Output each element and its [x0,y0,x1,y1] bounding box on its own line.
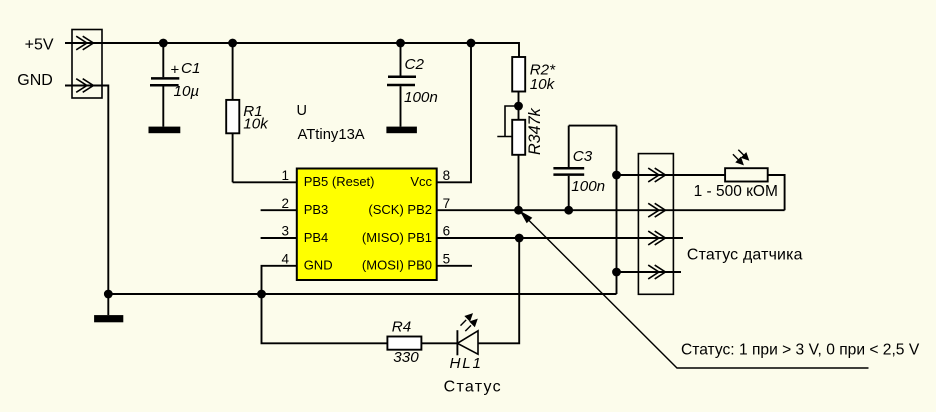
photoresistor body [725,168,768,181]
wire pin3 stub [261,237,297,239]
photoresistor light arrows [733,150,748,165]
svg-text:HL1: HL1 [450,355,483,372]
svg-text:R4: R4 [392,318,411,335]
svg-text:(MOSI) PB0: (MOSI) PB0 [362,258,432,273]
svg-text:Статус: Статус [444,378,502,395]
resistor R2 [512,57,525,120]
connector X1 [72,30,102,99]
LED HL1 [457,330,478,355]
svg-text:6: 6 [443,224,451,239]
leader arrowhead [520,211,533,224]
svg-text:Статус датчика: Статус датчика [687,246,803,263]
junction C3 pin7 [564,206,573,215]
IC U1 ATtiny13A body [297,169,437,281]
wire pin6 status [437,237,683,239]
svg-text:PB4: PB4 [304,230,329,245]
svg-text:ATtiny13A: ATtiny13A [298,127,365,143]
svg-text:1 - 500 кОМ: 1 - 500 кОМ [694,183,778,200]
svg-text:5: 5 [443,252,451,267]
wire pin8 Vcc [437,43,471,182]
wire arrow4 gnd stub [617,271,681,273]
junction sensor gnd [612,171,621,180]
svg-text:8: 8 [443,168,451,183]
capacitor C1 [150,43,179,127]
junction LED pin6 [515,234,524,243]
svg-text:C1: C1 [181,60,200,77]
svg-text:2: 2 [281,196,289,211]
wire C3 top loop [569,125,617,127]
svg-text:GND: GND [17,72,53,89]
svg-text:R347k: R347k [526,107,544,155]
svg-text:7: 7 [443,196,451,211]
svg-text:(SCK) PB2: (SCK) PB2 [368,202,432,217]
svg-text:+: + [171,62,180,79]
svg-text:(MISO) PB1: (MISO) PB1 [362,230,432,245]
ground symbol C2 [386,127,417,134]
junction rail gnd [104,290,113,299]
wire photoresistor right loop [768,175,785,210]
wire pin1 [233,181,297,183]
svg-text:10k: 10k [530,76,556,93]
junction +5V C2 [396,39,405,48]
leader note line [520,212,869,369]
svg-text:100n: 100n [571,178,605,195]
wire arrow1 sensor [617,174,726,176]
svg-text:+5V: +5V [25,36,54,53]
junction +5V Vcc [467,39,476,48]
junction +5V C1 [159,39,168,48]
capacitor C3 [553,126,584,211]
LED emission arrows [461,314,477,331]
junction R2 R3 [514,102,523,111]
wire pin5 stub [437,265,472,267]
resistor R1 [226,43,239,182]
capacitor C2 [387,43,416,127]
svg-text:4: 4 [281,252,289,267]
svg-text:330: 330 [393,349,419,366]
svg-text:10k: 10k [243,115,269,132]
wire ground feed vertical [616,126,618,294]
svg-text:Vcc: Vcc [410,174,432,189]
junction rail pin4 [257,290,266,299]
wire +5V rail [65,43,519,57]
wire GND [65,86,108,295]
wire pin7 ADC [437,209,785,211]
svg-text:PB3: PB3 [304,202,329,217]
junction +5V R1 [228,39,237,48]
svg-text:10µ: 10µ [174,83,200,100]
svg-text:Статус: 1 при > 3 V, 0 при < 2: Статус: 1 при > 3 V, 0 при < 2,5 V [681,342,920,359]
wire pin2 stub [261,209,297,211]
wire R4 to LED [421,342,457,344]
wire pin4 GND [262,266,297,294]
wire R4 branch [262,294,388,343]
svg-text:C2: C2 [405,56,425,73]
svg-text:PB5 (Reset): PB5 (Reset) [304,174,375,189]
svg-text:U: U [297,103,307,119]
svg-text:3: 3 [281,224,289,239]
connector X2 [638,154,673,295]
svg-text:100n: 100n [404,89,438,106]
svg-text:GND: GND [304,258,333,273]
wire ground rail [108,293,616,295]
ground symbol C1 [149,127,181,134]
svg-text:1: 1 [281,168,289,183]
wire LED up to pin6 [478,238,519,343]
svg-text:C3: C3 [573,148,593,165]
junction R3 pin7 [514,206,523,215]
resistor R4 [387,337,421,350]
ground symbol main [107,294,109,315]
trimmer R3 [497,106,525,210]
junction arrow4 gnd [612,268,621,277]
